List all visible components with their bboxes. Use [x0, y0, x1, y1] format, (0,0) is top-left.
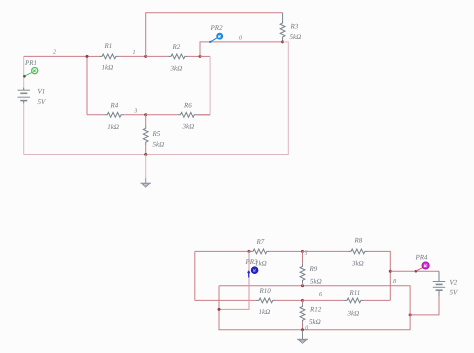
svg-text:5kΩ: 5kΩ [290, 33, 302, 41]
wire [86, 56, 88, 114]
svg-text:R3: R3 [290, 23, 299, 31]
svg-text:R5: R5 [152, 130, 161, 138]
svg-text:5kΩ: 5kΩ [153, 141, 165, 149]
junction [301, 299, 304, 302]
wire [146, 55, 168, 57]
svg-text:3kΩ: 3kΩ [182, 123, 195, 131]
wire [303, 299, 345, 301]
resistor R5 [143, 115, 164, 149]
wire [368, 251, 390, 300]
resistor R7 [250, 238, 270, 268]
junction [301, 328, 304, 331]
junction [218, 308, 221, 311]
svg-text:2: 2 [53, 50, 56, 56]
wire [119, 55, 146, 57]
svg-text:V1: V1 [38, 88, 46, 96]
svg-text:R9: R9 [309, 265, 318, 273]
probe PR2 [209, 24, 223, 43]
wire [249, 250, 250, 252]
battery V2 [433, 271, 458, 296]
junction [144, 153, 147, 156]
svg-text:8: 8 [393, 279, 396, 285]
wire [87, 55, 99, 57]
svg-text:5V: 5V [38, 98, 47, 106]
wire [200, 55, 210, 57]
resistor R9 [300, 251, 322, 285]
wire [270, 250, 303, 252]
wire [276, 299, 303, 301]
svg-text:5kΩ: 5kΩ [310, 277, 322, 285]
svg-text:R4: R4 [110, 102, 119, 110]
wire [390, 270, 439, 272]
svg-text:1kΩ: 1kΩ [107, 123, 119, 131]
junction [248, 250, 251, 253]
junction [301, 284, 304, 287]
resistor R1 [99, 42, 119, 72]
svg-text:R6: R6 [183, 102, 192, 110]
junction [144, 55, 147, 58]
svg-text:PR1: PR1 [24, 59, 37, 67]
ground [297, 330, 308, 344]
svg-text:0: 0 [239, 36, 242, 42]
wire [194, 251, 196, 300]
svg-text:3: 3 [133, 109, 137, 115]
svg-text:6: 6 [319, 292, 322, 298]
junction [409, 313, 412, 316]
svg-text:3kΩ: 3kΩ [170, 65, 183, 73]
svg-text:3kΩ: 3kΩ [347, 310, 360, 318]
wire [197, 114, 210, 116]
wire [24, 42, 289, 155]
wire [23, 56, 25, 90]
svg-text:1: 1 [133, 50, 136, 56]
svg-text:1kΩ: 1kΩ [102, 64, 114, 72]
resistor R12 [300, 300, 322, 329]
junction [281, 40, 284, 43]
wire [364, 299, 390, 301]
svg-text:5V: 5V [450, 289, 459, 297]
wire [209, 56, 211, 114]
wire [24, 55, 87, 57]
svg-text:PR3: PR3 [245, 258, 259, 266]
svg-text:PR4: PR4 [415, 254, 429, 262]
svg-text:R12: R12 [309, 306, 322, 314]
wire PR3 tap [219, 251, 249, 309]
junction [144, 113, 147, 116]
svg-text:R8: R8 [354, 237, 363, 245]
junction [301, 250, 304, 253]
resistor R11 [344, 289, 364, 317]
junction [86, 55, 89, 58]
wire [195, 299, 256, 301]
wire [303, 250, 349, 252]
resistor R2 [168, 43, 188, 73]
resistor R3 [280, 13, 301, 42]
svg-text:1kΩ: 1kΩ [259, 308, 271, 316]
svg-text:R1: R1 [104, 42, 113, 50]
svg-text:3kΩ: 3kΩ [351, 260, 364, 268]
wire [23, 104, 25, 155]
junction [199, 55, 202, 58]
svg-text:0: 0 [305, 325, 308, 331]
wire [146, 13, 283, 57]
svg-text:V2: V2 [450, 279, 458, 287]
resistor R6 [177, 102, 197, 131]
svg-text:5kΩ: 5kΩ [309, 318, 321, 326]
wire [200, 42, 283, 57]
wire [410, 296, 439, 315]
wire [188, 55, 200, 57]
probe PR4 [415, 254, 430, 273]
battery V1 [18, 88, 47, 107]
ground [140, 155, 151, 188]
probe PR1 [23, 59, 38, 77]
svg-text:R11: R11 [349, 289, 361, 297]
svg-text:R7: R7 [256, 238, 265, 246]
wire [219, 286, 410, 330]
wire [146, 114, 178, 116]
junction [389, 270, 392, 273]
svg-text:R2: R2 [172, 43, 181, 51]
wire [197, 114, 210, 116]
resistor R10 [256, 287, 276, 316]
wire [124, 114, 146, 116]
wire [145, 145, 147, 154]
svg-text:R10: R10 [259, 287, 272, 295]
probe PR3 [245, 258, 259, 278]
wire [87, 114, 104, 116]
resistor R4 [104, 102, 124, 131]
wire [195, 250, 249, 252]
resistor R8 [348, 237, 368, 268]
svg-text:PR2: PR2 [210, 24, 224, 32]
